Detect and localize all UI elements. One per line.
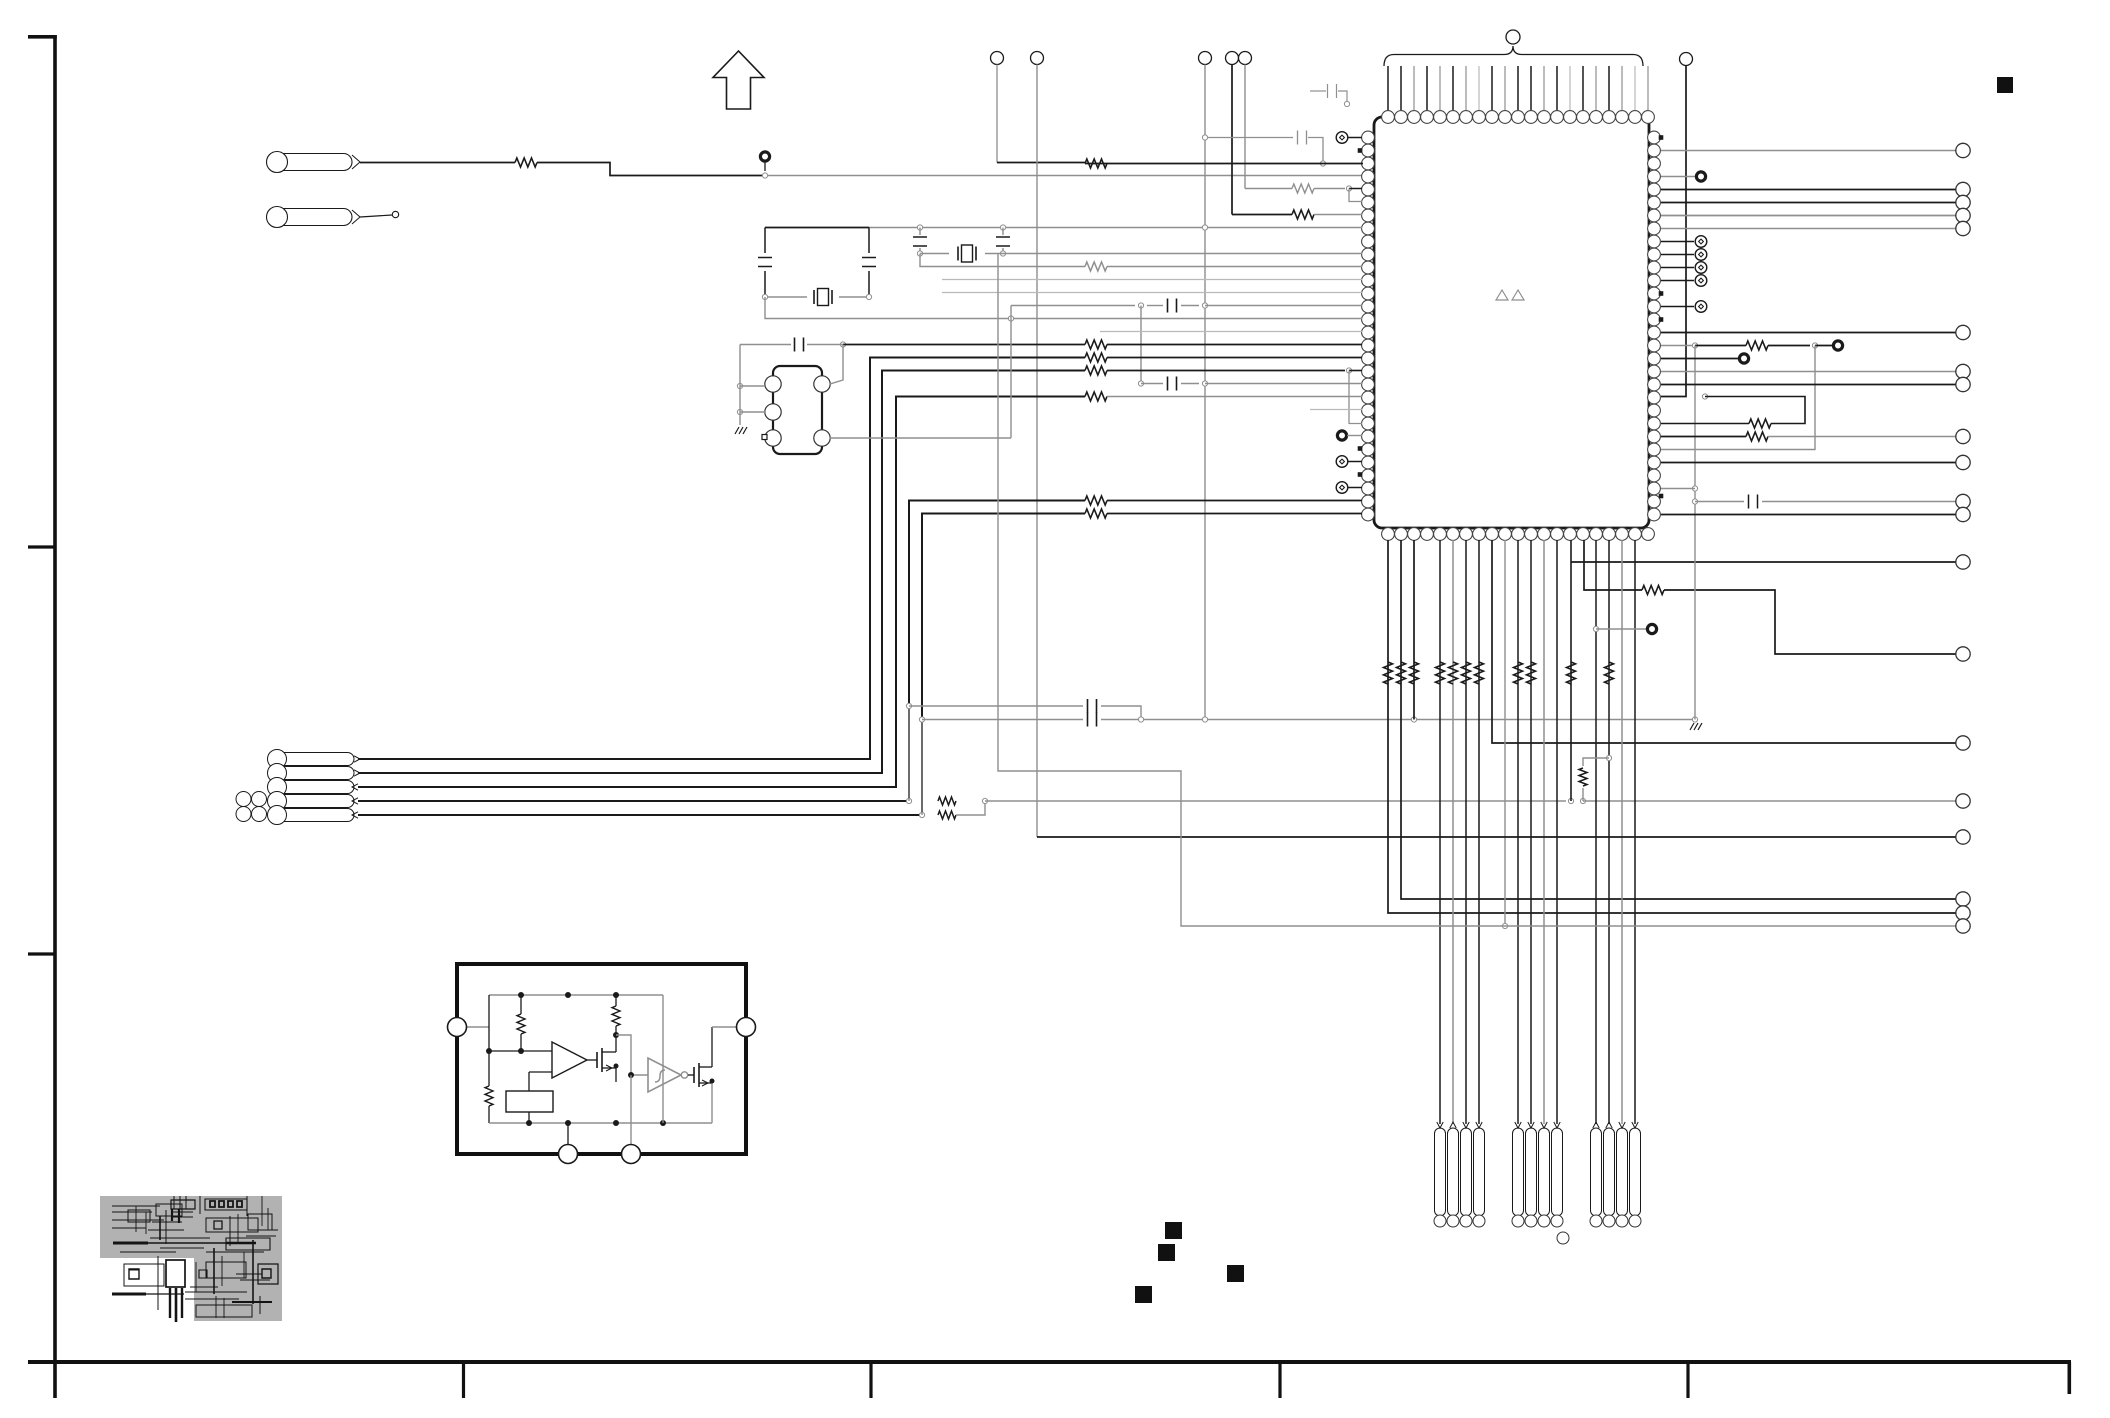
wire pin R7 to terminal [1661,228,1956,230]
detail wire resonator bottom [528,1112,530,1123]
wire bundle W2 pin L18 [358,371,1085,774]
target symbol pin L27 [1336,482,1348,494]
black square M1 [1165,1222,1182,1239]
wire to resistor R5 pin L10 [920,254,1085,267]
wire cap line to pin L13 [1011,305,1135,307]
test point TP6 pin R17 [1661,358,1738,360]
detail resonator Xa [506,1091,553,1112]
test point TP3 [1647,624,1656,633]
terminal T1 [991,52,1004,65]
resistor R19 [1579,768,1587,786]
capacitor C3 [764,228,766,254]
connector group B circles [1512,1215,1524,1227]
resistor R15 [1397,662,1406,684]
resistor R11 [1085,509,1107,518]
resistor R4 on T4 net [1232,214,1292,216]
wire crystal rail [765,227,869,229]
square mark pin R14 [1659,317,1664,322]
wire p1 [1401,540,1956,899]
IC U1 left pin column [1362,131,1375,521]
wire faint pin L15 [1100,331,1362,333]
terminal T2 [1031,52,1044,65]
connector group C arrows [1593,1122,1599,1128]
resistor R6 [1085,340,1107,349]
wire pin R1 to terminal [1661,150,1956,152]
connector group A pills [1435,1128,1446,1216]
connector P1 (probe pill) [268,154,352,171]
square mark pin R12 [1659,291,1664,296]
detail resistor Rc [488,1082,490,1086]
capacitor C6 [1002,228,1004,236]
wire T1 vertical [996,65,998,163]
connector J1 tip arrows [354,756,360,762]
detail wire to amp input [489,1050,552,1052]
resistor R17 [1642,586,1664,595]
wire p14 [1570,540,1572,801]
wire bundle W4 pin L28 [358,800,909,802]
wire pin R16 net [1661,345,1692,347]
wire pin R29 to terminal [1661,514,1956,516]
wires p10-p13 to connector B [1517,540,1519,1124]
wire pin R23 via resistor to terminal [1661,436,1746,438]
resistor R8 [1085,366,1107,375]
wire p0 [1388,540,1956,913]
capacitor C4 [868,228,870,254]
cap C2 branch to pin L2 [1205,137,1293,139]
wire pin R6 to terminal [1661,215,1956,217]
ground rail [1101,719,1695,721]
wire P1 to R1 [360,162,515,164]
wire p2 [1413,540,1415,720]
wire T2 long vertical [1036,65,1038,838]
wire long gray to terminal RT8 [985,800,1566,802]
cap C1 line into pin L0 net [1310,90,1326,92]
capacitor C8 [740,344,791,346]
terminal column right edge [1956,143,1970,157]
wire W5 lower vertical [921,720,923,816]
target symbol pin L25 [1336,456,1348,468]
wire R1 to step [537,163,765,176]
wire faint pin L11 [942,279,1362,281]
detail wire amp out [587,1059,597,1061]
resonator module body [773,366,822,454]
detail box top rail [489,994,663,996]
wire T3 vertical [1204,65,1206,720]
wire pin R5 to terminal [1661,202,1956,204]
detail wire drain to schmitt [616,1035,648,1075]
wire W4 lower vertical [908,706,910,801]
capacitor C10 on ground rail [922,719,1083,721]
connector group A arrows [1437,1122,1443,1128]
square mark pin R0 [1659,135,1664,140]
wire module left pads [737,383,742,388]
wire p9 [1504,540,1506,926]
wire pin R25 to terminal [1661,462,1956,464]
connector group C circles [1590,1215,1602,1227]
resistor R20 [1695,345,1746,347]
border frame bottom rule [28,1360,2071,1364]
resistor R18b [1605,662,1614,684]
wire T1 net to pin L2 [1085,163,1363,165]
node p16 branch [1593,626,1598,631]
node p17 branch [1606,755,1611,760]
square mark pin L26 [1358,472,1363,477]
wire bundle W3 pin L20 [358,397,1085,788]
wire module TR pad [830,345,843,385]
connector group B pills [1513,1128,1524,1216]
terminal T5 [1239,52,1252,65]
resistor R21 [1749,419,1771,428]
wire branch pin L22 [1349,371,1362,424]
capacitor C7 [1147,305,1163,307]
resistor R10 [1085,496,1107,505]
test point TP1 (bold circle) [764,162,766,171]
wire module BR pad to cap net [830,437,1011,439]
black square M5 top right [1997,77,2013,93]
black square M4 [1135,1286,1152,1303]
terminal T3 [1199,52,1212,65]
black square M2 [1158,1244,1175,1261]
detail resistor Rb [612,1006,620,1026]
connector group B arrows [1515,1122,1521,1128]
target symbol pin R13 [1661,306,1694,308]
wire node to pin L4 [1349,188,1362,190]
wire TP5 net vertical [1661,346,1815,450]
detail wire resonator top [528,1072,530,1091]
connector group C pills [1591,1128,1602,1216]
wire cap to terminal [1695,501,1744,503]
wire pin R27 stub [1661,488,1695,490]
resistor R12 [938,797,956,805]
crystal X1 [765,296,807,298]
wire T2 net to terminal [1037,836,1956,838]
detail MOSFET Q1 [596,1052,598,1068]
target symbol pin L0 [1336,132,1348,144]
detail box U2 outline [457,964,746,1154]
terminal T6 [1680,53,1693,66]
terminal above brace [1506,30,1520,44]
wires p16-p19 to connector C [1595,540,1597,1124]
wire branch to pin L5 [1349,189,1362,202]
connector group A circles [1434,1215,1446,1227]
wire faint pin L12 [942,292,1362,294]
brace over top pins [1384,46,1643,66]
wire T4 vertical [1231,65,1233,215]
IC U1 bottom pin row [1382,528,1655,541]
detail bottom terminal 1 [567,1123,569,1148]
wire module ground drop [739,345,741,426]
wire T5 vertical [1244,65,1246,189]
wire P2 stub [360,215,392,217]
wire cap line B to pin L19 [1138,381,1143,386]
wire bundle W5 pin L29 [358,814,922,816]
inset thumbnail gray panel [100,1196,282,1321]
test point TP2 pin L23 [1337,431,1346,440]
resistor R18 [1567,662,1576,684]
detail amplifier A1 [552,1042,587,1078]
square mark pin L1 [1358,148,1363,153]
connector P2 (probe pill) [268,209,352,226]
node W5 [919,812,924,817]
square mark pin L24 [1358,446,1363,451]
border frame left rule [53,35,57,1398]
inset thumbnail circuit scribbles [112,1196,278,1322]
resistor R5 [1085,262,1107,271]
resonator module pads [765,376,781,392]
resistor R3 on T5 net [1245,188,1292,190]
test point TP4 pin R3 [1661,176,1695,178]
wire crystal tail to pin L14 [765,297,1011,319]
detail box wire left vertical [488,995,490,1082]
wire ground vertical right [1694,346,1696,720]
detail wire to right terminal [712,1026,740,1028]
square mark pin R28 [1659,494,1664,499]
wire vertical join [1010,306,1012,439]
capacitor C9 [909,705,1083,707]
wire cap net to pin L16 [840,342,845,347]
IC U1 internal marking (two triangles) [1496,290,1524,300]
IC U1 body [1374,117,1649,528]
wire pin R19 to terminal [1661,384,1956,386]
resistor R1 [515,158,537,167]
resistor R9 [1085,392,1107,401]
node W4 [906,798,911,803]
wires p4-p7 to connector A [1439,540,1441,1124]
ground symbol [735,427,739,434]
resistor R7 [1085,353,1107,362]
wire link caps [1140,306,1142,384]
detail bottom rail [489,1122,712,1124]
wire T6 long vertical to pin R20 [1661,66,1686,397]
terminal T4 [1226,52,1239,65]
square mark on pad [762,435,767,440]
resistor R2 [1085,159,1107,168]
IC U1 top pin wires [1388,66,1648,110]
wire pin R4 to terminal [1661,189,1956,191]
resistor R14 [1384,662,1393,684]
connector J1 pill group [268,753,354,766]
ground symbol GND2 [1690,723,1694,730]
up arrow symbol [713,51,764,109]
detail resistor Ra [517,1014,525,1034]
connector J1 end circles [268,750,287,769]
wire pin R15 to terminal [1661,332,1956,334]
detail wire schmitt top feed [662,995,664,1123]
detail bottom terminal 2 [630,1075,632,1148]
IC U1 right pin column [1648,131,1661,521]
wire gray return to terminal [998,254,1956,927]
resistor R13 [938,811,956,819]
wire p15 via resistor [1584,540,1642,590]
wire pin R20 loop [1702,394,1707,399]
connector J1 aux circles [236,792,251,807]
test point TP5 [1833,341,1842,350]
wire bundle W1 pin L17 [358,358,1085,760]
detail MOSFET Q2 [688,1074,694,1076]
wire p8 [1492,540,1956,743]
wire faint pin L21 [1310,409,1362,411]
black square M3 [1227,1265,1244,1282]
wire pin R18 to terminal [1661,371,1956,373]
capacitor C5 [919,228,921,236]
detail box left terminal [463,1026,489,1028]
detail schmitt trigger S1 [648,1058,681,1092]
IC U1 top pin row [1382,111,1655,124]
target symbols pins R8-R11 [1661,241,1694,243]
crystal X2 line to pin L9 [917,251,922,256]
resistor R16 [1410,662,1419,684]
net N1 gray bus to pin L3 [765,175,1363,177]
